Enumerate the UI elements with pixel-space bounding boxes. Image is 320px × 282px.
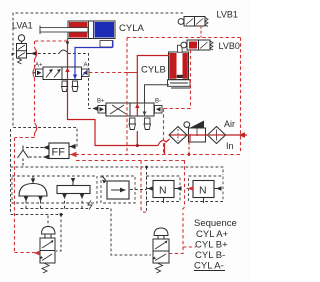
- svg-text:In: In: [226, 141, 234, 151]
- wire LVA1 output dashed to B+ pilot: [38, 50, 94, 109]
- wire red dashed upper horizontal: [35, 40, 68, 42]
- valve B crossed arrows left box: [110, 105, 126, 114]
- lubricator L1: [208, 127, 226, 144]
- svg-text:FF: FF: [52, 147, 66, 159]
- valve U-A 5/2 body: [43, 67, 82, 80]
- svg-text:CYLA: CYLA: [119, 23, 144, 34]
- counter N2 box: [187, 181, 222, 198]
- valve U-B 5/2 body: [106, 103, 154, 116]
- valve A arrows left box: [46, 69, 61, 78]
- wire red dashed pilot bus: [69, 154, 241, 156]
- svg-text:Air: Air: [224, 119, 235, 129]
- svg-text:N: N: [159, 185, 167, 197]
- enclosure dashed logic group 1: [12, 176, 97, 203]
- svg-text:CYL B+: CYL B+: [195, 240, 228, 251]
- wire counter N2 bottom stub: [203, 198, 205, 204]
- wire red CYLA left port down to valve A and supply: [68, 39, 170, 146]
- wire red dashed regulator drop: [188, 142, 190, 155]
- wire arrow into B+ pilot: [93, 106, 99, 111]
- silencer exhaust B left: [129, 118, 136, 130]
- air inlet arrow: [239, 132, 246, 138]
- wire black dashed step column: [146, 167, 148, 213]
- valve A active straight paths: [67, 67, 69, 80]
- enclosure dashed logic group 4: [189, 176, 224, 202]
- pilot A-: [82, 63, 90, 77]
- svg-text:B-: B-: [155, 99, 161, 105]
- silencer exhaust A left: [62, 81, 68, 92]
- valve PB2 bottom-middle 3/2: [153, 228, 169, 273]
- svg-text:CYL B-: CYL B-: [195, 250, 225, 261]
- node junction supply to valve B: [136, 144, 139, 147]
- gate step arrow box: [102, 176, 129, 199]
- wire red dashed station-B box top and right: [127, 38, 241, 155]
- node junction lower bus: [60, 213, 63, 216]
- cylinder CYLB vertical: [169, 45, 189, 79]
- wire CYLB bottom port to valve B: [145, 85, 170, 103]
- valve LVA1 3/2 roller: [12, 35, 27, 64]
- wire LVA1 output stub: [27, 51, 37, 56]
- cylinder CYLA: [40, 21, 115, 39]
- valve PB1 bottom-left 3/2: [40, 227, 55, 274]
- wire black dashed bus: [11, 167, 224, 175]
- wire red valve B to CYLB top port: [137, 56, 169, 117]
- wire FF output arrow: [69, 144, 76, 149]
- svg-text:A+: A+: [35, 63, 43, 69]
- port block CYLA rod side: [100, 41, 113, 48]
- wire black dashed lower bus: [11, 197, 152, 255]
- wire red arrow into PB1: [34, 250, 40, 255]
- pilot B-: [155, 99, 163, 114]
- valve LVB1 3/2 roller: [178, 17, 208, 27]
- gate OR dome: [19, 176, 47, 202]
- wire red dashed bus to valve PB2 group: [141, 161, 146, 213]
- silencer exhaust A right: [72, 81, 78, 92]
- wire red dashed left box to PB1: [15, 138, 37, 253]
- wire red dashed drop right of supply: [163, 109, 165, 155]
- counter N1 box: [147, 181, 182, 198]
- switch S1 manual select: [18, 145, 49, 167]
- label sequence list: [194, 218, 237, 272]
- valve B active straight path: [136, 103, 138, 116]
- enclosure dashed logic group 2: [101, 176, 135, 203]
- node junction CYLA port: [66, 41, 69, 44]
- silencer exhaust B right: [144, 118, 151, 130]
- wire blue CYLA rod-side port to valve A: [75, 41, 113, 67]
- wire red pilot LVA1 vertical: [15, 41, 37, 138]
- pilot A+: [33, 63, 44, 77]
- svg-text:CYL A+: CYL A+: [196, 229, 229, 240]
- wire red branch supply to bus: [164, 143, 166, 155]
- wire red air supply through units: [170, 135, 247, 142]
- svg-text:Sequence: Sequence: [194, 218, 237, 229]
- wire red dashed A- pilot line: [89, 72, 137, 74]
- cylinder CYLB bottom cap: [168, 80, 191, 88]
- wire red pilot stub to A+: [35, 72, 38, 74]
- valve LVB0 3/2 roller: [181, 40, 213, 50]
- regulator R1: [184, 121, 206, 143]
- wire red dashed counter gap drop: [181, 161, 185, 210]
- svg-text:LVA1: LVA1: [12, 21, 33, 31]
- wire red bus arrow at FF: [70, 152, 77, 158]
- svg-text:N: N: [199, 185, 207, 197]
- outer dashed enclosure loop: [11, 13, 184, 213]
- filter F1: [169, 127, 187, 144]
- svg-text:CYLB: CYLB: [141, 65, 166, 76]
- svg-text:CYL A-: CYL A-: [194, 261, 224, 272]
- wire dashed step box to counter: [130, 189, 146, 191]
- wire red pilot below LVB1: [200, 26, 202, 38]
- relay FF box: [49, 143, 69, 159]
- svg-text:B+: B+: [97, 99, 105, 105]
- enclosure dashed logic group 3: [147, 176, 181, 202]
- svg-text:LVB0: LVB0: [219, 41, 240, 51]
- svg-text:LVB1: LVB1: [217, 10, 238, 20]
- pilot B+: [97, 99, 106, 114]
- wire red dashed second bus: [76, 160, 187, 162]
- wire red dashed PB2 right riser: [169, 213, 196, 254]
- gate memory wide box: [57, 178, 90, 199]
- svg-text:A-: A-: [84, 63, 90, 69]
- node junction on red bus: [188, 153, 191, 156]
- wire red dashed LVB0 to B- pilot: [162, 50, 191, 109]
- wire counter N1 bottom stub: [163, 198, 165, 204]
